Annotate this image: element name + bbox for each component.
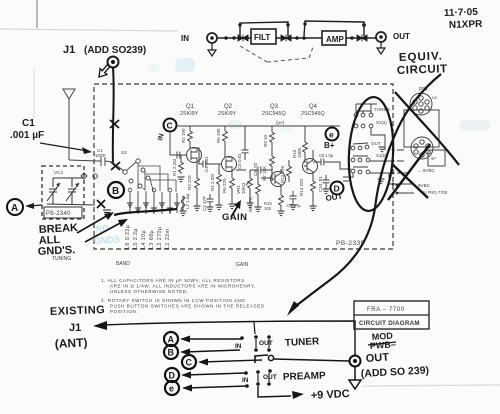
- node circle: [93, 174, 97, 178]
- svg-text:AMP: AMP: [326, 35, 344, 44]
- arrow to C: [202, 360, 262, 362]
- pencil line top-left vertical: [36, 0, 38, 28]
- switch S1a contacts: [354, 113, 358, 117]
- ground at input jack: [208, 43, 216, 56]
- wire C1 to S2: [112, 162, 124, 171]
- ground below OUT jack: [349, 367, 361, 389]
- svg-text:POSITION.: POSITION.: [110, 309, 138, 314]
- svg-text:VC1: VC1: [54, 170, 64, 176]
- svg-text:B: B: [168, 348, 175, 358]
- svg-text:R3 220: R3 220: [187, 175, 192, 190]
- svg-text:9P: 9P: [431, 156, 436, 161]
- cross-out X upper (line 2): [395, 92, 459, 165]
- wire AMP to output: [346, 37, 376, 39]
- wire Q2-Q3 base: [261, 174, 272, 181]
- B+ rail: [176, 125, 340, 127]
- svg-text:FILT: FILT: [254, 33, 270, 42]
- svg-text:A: A: [11, 203, 18, 214]
- svg-text:(µA): (µA): [276, 120, 285, 125]
- transistor Q1 (FET): [187, 148, 202, 163]
- wire input to FILT: [217, 37, 251, 39]
- ground in switch: [379, 147, 386, 152]
- svg-text:J1: J1: [63, 44, 75, 56]
- svg-text:OUT: OUT: [263, 374, 277, 381]
- connector J-out (coax jack): [376, 32, 386, 42]
- small plug box 9P: [428, 150, 445, 166]
- wire VC1 bottom bus: [47, 204, 95, 205]
- svg-text:D: D: [169, 371, 176, 381]
- inductor bank vertical leads L1-L6: [130, 191, 177, 214]
- pushbutton switch contacts (tuner): [240, 336, 244, 340]
- switch S1b contacts: [351, 146, 355, 150]
- svg-text:R14 220: R14 220: [299, 178, 304, 196]
- circled node E with B+: [326, 128, 339, 141]
- svg-text:ARE IN Ω 1/4W, ALL INDUCTO: ARE IN Ω 1/4W, ALL INDUCTORS ARE IN MICR…: [110, 284, 256, 289]
- arrow from C1 label to cap: [40, 143, 88, 151]
- svg-text:R8 47K: R8 47K: [248, 197, 253, 212]
- wire FILT to AMP: [276, 37, 322, 39]
- svg-text:IN: IN: [181, 34, 189, 43]
- connector body rectangle: [404, 110, 439, 147]
- svg-text:PUSH BUTTON SWITCHES ARE S: PUSH BUTTON SWITCHES ARE SHOWN IN THE RE…: [110, 304, 265, 309]
- circled letter A: [7, 199, 23, 215]
- hollow arrow pointing to J1: [99, 65, 110, 77]
- svg-text:2. ROTARY SWITCH IS SHOWN: 2. ROTARY SWITCH IS SHOWN IN CCW POSITIO…: [101, 298, 245, 303]
- arrow into A: [30, 205, 42, 206]
- svg-text:GAIN: GAIN: [222, 212, 247, 223]
- svg-text:L6 0.22µ: L6 0.22µ: [125, 225, 131, 249]
- circled letter E (bottom): [165, 381, 179, 395]
- connector J-in (coax jack): [207, 33, 217, 43]
- circled letter C (bottom): [182, 355, 196, 369]
- svg-text:IN: IN: [235, 343, 242, 350]
- svg-text:100K: 100K: [297, 147, 302, 158]
- svg-text:EQUIV.: EQUIV.: [399, 50, 443, 64]
- svg-text:to FRG-7700: to FRG-7700: [423, 190, 448, 195]
- svg-text:R2 100: R2 100: [181, 128, 186, 143]
- svg-text:R7 15K: R7 15K: [262, 166, 267, 181]
- svg-text:CIRCUIT DIAGRAM: CIRCUIT DIAGRAM: [359, 320, 420, 327]
- blue smudge 1: [175, 58, 195, 72]
- transistor Q4 (BJT): [303, 159, 318, 174]
- svg-text:GAIN: GAIN: [236, 262, 249, 268]
- junction dot: [295, 36, 298, 39]
- svg-text:L7 1.6µ: L7 1.6µ: [185, 193, 190, 209]
- svg-text:C2 47P: C2 47P: [202, 196, 207, 211]
- svg-text:100: 100: [264, 206, 272, 211]
- node diamond: [81, 173, 87, 179]
- svg-text:S2: S2: [121, 150, 127, 156]
- cross-out X lower stroke 2: [392, 164, 428, 198]
- arrow to A: [184, 338, 242, 340]
- ground by X: [103, 210, 111, 215]
- svg-text:B: B: [112, 186, 119, 197]
- contact circles atop inductors: [128, 188, 132, 192]
- svg-text:Q2: Q2: [224, 104, 233, 110]
- svg-text:P8-2340: P8-2340: [46, 211, 71, 217]
- blue smudge 4: [280, 125, 292, 133]
- svg-text:NC: NC: [432, 96, 438, 100]
- X mark near S2: [111, 162, 120, 170]
- svg-text:e: e: [169, 384, 174, 394]
- svg-text:R1 2.2M: R1 2.2M: [172, 159, 177, 176]
- svg-text:9VBC: 9VBC: [418, 183, 431, 188]
- circled node D with OUT: [331, 182, 344, 195]
- transistor Q3 (BJT): [271, 172, 286, 187]
- circled letter A (bottom): [164, 332, 178, 346]
- svg-text:IN: IN: [242, 377, 249, 384]
- wire to +9VDC: [258, 386, 291, 397]
- svg-text:Q1: Q1: [186, 104, 195, 110]
- svg-text:C6 .02: C6 .02: [253, 162, 258, 176]
- svg-text:A: A: [168, 335, 175, 345]
- svg-text:EXISTING: EXISTING: [50, 304, 106, 318]
- filter box FILT: [251, 29, 276, 44]
- wire joining VC1 tops: [53, 177, 84, 179]
- gate cap: [177, 152, 180, 159]
- svg-text:+9 VDC: +9 VDC: [311, 388, 350, 402]
- FRA-7700 title box: [354, 301, 429, 329]
- svg-text:2SKI9Y: 2SKI9Y: [218, 111, 237, 117]
- junction dot: [224, 36, 227, 39]
- ground at output jack: [377, 42, 385, 54]
- diode pair after FILT: [281, 35, 291, 42]
- svg-text:e: e: [329, 130, 334, 140]
- arrow 1 to grounds: [77, 214, 110, 233]
- svg-text:1.0µ: 1.0µ: [325, 153, 334, 158]
- heavy bus stroke under grounds: [114, 209, 177, 215]
- svg-text:L4 10µ: L4 10µ: [141, 230, 147, 249]
- svg-text:OUT: OUT: [371, 141, 381, 146]
- junction dot: [350, 36, 353, 39]
- svg-text:Q4: Q4: [309, 104, 318, 110]
- arrow to D: [185, 373, 245, 375]
- svg-text:J1: J1: [69, 322, 81, 334]
- svg-text:R5 100: R5 100: [216, 128, 221, 143]
- wires edge to connector: [397, 150, 414, 193]
- diode pair at output: [357, 35, 367, 42]
- svg-text:2SC945Q: 2SC945Q: [301, 111, 325, 117]
- wire antenna to C1: [69, 160, 97, 161]
- svg-text:2SC945Q: 2SC945Q: [262, 111, 286, 117]
- X mark at board gnd: [97, 200, 105, 208]
- svg-text:PREAMP: PREAMP: [283, 371, 326, 383]
- pushbutton switch contacts (preamp): [244, 371, 248, 375]
- connector face P2 (circular, 7 pins): [411, 137, 433, 159]
- circled letter B: [108, 182, 124, 198]
- svg-text:C: C: [186, 358, 193, 368]
- connector face P1 (circular, 7 pins): [410, 93, 432, 115]
- wire lever to OUT jack: [274, 359, 349, 361]
- switch wires to board edge: [343, 128, 397, 184]
- antenna symbol: [63, 89, 75, 160]
- switch lever: [255, 355, 268, 363]
- svg-text:10KΩ: 10KΩ: [241, 182, 246, 194]
- svg-text:BAND: BAND: [116, 261, 130, 267]
- svg-text:N1XPR: N1XPR: [449, 19, 483, 31]
- blue smudge 3: [148, 64, 160, 72]
- X mark on J1 wire: [110, 120, 119, 128]
- variable capacitor VC1b: [66, 178, 79, 204]
- svg-text:C5 0.01: C5 0.01: [237, 153, 242, 169]
- arrow to E: [186, 386, 247, 388]
- svg-text:(ADD SO239): (ADD SO239): [84, 45, 146, 56]
- faint vertical pencil line left: [33, 68, 35, 120]
- svg-text:TUNER: TUNER: [285, 336, 321, 349]
- blue smudge 5: [460, 120, 490, 131]
- input wire to Q1 gate: [170, 132, 186, 155]
- circled letter D (bottom): [165, 368, 179, 382]
- junction dots: [396, 184, 399, 187]
- ground in switch lower: [378, 179, 385, 184]
- svg-text:C1: C1: [22, 118, 35, 129]
- dashed perspective lines under FILT: [240, 46, 313, 62]
- junction dot: [302, 36, 305, 39]
- junction dot: [232, 36, 235, 39]
- tuning cap assembly dashed box VC1: [42, 166, 84, 219]
- svg-text:2SKI9Y: 2SKI9Y: [180, 111, 199, 117]
- rotary contact cascade: [141, 168, 145, 172]
- transistor Q2 (FET): [222, 157, 237, 172]
- svg-text:R4 2.2M: R4 2.2M: [210, 174, 215, 191]
- svg-text:L2 270µ: L2 270µ: [157, 227, 163, 249]
- junction dots at edge: [392, 172, 395, 175]
- label box P8-2340: [44, 207, 82, 218]
- ground symbols of inductor bank: [127, 203, 180, 212]
- svg-text:OUT: OUT: [259, 340, 273, 347]
- svg-text:L1 22m: L1 22m: [165, 229, 171, 249]
- blue smudge 2: [228, 120, 242, 129]
- circled node C with IN: [164, 119, 177, 132]
- hand-drawn ellipse around switch: [346, 96, 396, 212]
- arrow 2 to grounds: [85, 221, 124, 242]
- svg-text:OUT: OUT: [365, 351, 389, 365]
- diode pair at FILT input: [238, 35, 248, 42]
- wire J1 down into board: [112, 68, 115, 163]
- svg-text:B+: B+: [324, 141, 335, 150]
- svg-text:100P: 100P: [95, 153, 106, 158]
- svg-text:R9 10: R9 10: [263, 134, 268, 147]
- amplifier box AMP: [322, 31, 346, 45]
- circled letter B (bottom): [164, 345, 178, 359]
- svg-text:PWB–: PWB–: [369, 339, 396, 351]
- bypass wire over AMP: [304, 21, 364, 36]
- wires cascade to inductors: [138, 163, 153, 192]
- svg-text:L5 2.2µ: L5 2.2µ: [133, 228, 139, 249]
- svg-text:C10 .01: C10 .01: [318, 176, 323, 192]
- long wire OUT jack to existing J1 arrow: [101, 321, 355, 356]
- connector OUT jack: [350, 356, 361, 367]
- svg-text:S1(a): S1(a): [376, 120, 387, 125]
- svg-text:.001 µF: .001 µF: [10, 130, 44, 141]
- svg-text:FRA – 7700: FRA – 7700: [367, 307, 405, 313]
- svg-text:→ 9VBC: → 9VBC: [417, 168, 436, 173]
- svg-text:GND'S.: GND'S.: [38, 244, 76, 258]
- variable capacitor VC1a: [47, 178, 60, 204]
- connector J1 (SO239 jack): [108, 57, 119, 68]
- svg-text:R12 39K: R12 39K: [280, 165, 285, 183]
- cross-out X lower stroke 1: [388, 144, 430, 200]
- svg-text:OUT: OUT: [393, 32, 410, 41]
- bypass wire over FILT: [240, 22, 288, 36]
- faint scan line bottom-right: [362, 385, 500, 386]
- svg-text:1. ALL CAPACITORS ARE IN: 1. ALL CAPACITORS ARE IN µF 50WV, ALL RE…: [101, 278, 245, 283]
- faint scan line top-left: [0, 29, 178, 31]
- svg-text:R6 220: R6 220: [222, 178, 227, 193]
- svg-text:UNLESS OTHERWISE NOTED.: UNLESS OTHERWISE NOTED.: [110, 289, 188, 294]
- arrow GAIN to VR1: [231, 204, 239, 217]
- arrow to B: [184, 350, 240, 352]
- long arrow from equiv area to bottom switch: [292, 74, 441, 309]
- svg-text:(ANT): (ANT): [54, 335, 87, 351]
- svg-text:L3 68µ: L3 68µ: [149, 230, 155, 249]
- svg-text:C: C: [167, 121, 173, 131]
- svg-text:11·7·05: 11·7·05: [444, 7, 479, 19]
- main PCB dashed outline PB-2339: [94, 84, 393, 249]
- svg-text:Q3: Q3: [270, 104, 279, 110]
